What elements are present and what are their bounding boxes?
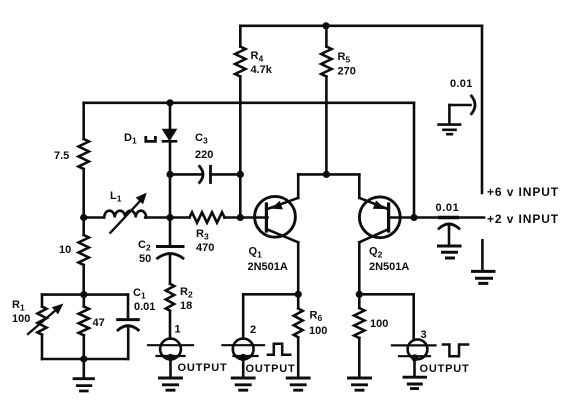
label R2 [180,286,193,312]
wire left rail upper [82,103,85,139]
capacitor C3 [170,173,202,176]
svg-text:OUTPUT: OUTPUT [246,363,296,375]
diode D1 [169,103,172,130]
node network bottom [80,355,87,362]
parallel network top bar [42,293,128,296]
node D1 top junction [166,99,173,106]
node D1/C3 junction [166,171,173,178]
capacitor 0.01 at +2v input [440,216,458,219]
node R4 / main line junction [237,214,244,221]
svg-text:0.01: 0.01 [436,202,460,214]
resistor R5 line [325,26,328,47]
svg-text:2: 2 [250,324,256,336]
ground 0.01 [439,246,461,258]
ground output 2 [232,378,254,390]
wire left rail lower [82,265,85,295]
wire Q2 collector [358,242,361,294]
wire Q1 collector [297,242,300,294]
svg-text:+2 v INPUT: +2 v INPUT [487,212,559,226]
svg-text:Q1: Q1 [249,246,263,260]
capacitor 0.01 feedthrough top right [449,104,470,107]
wire Q2 base to right [389,216,484,219]
inductor L1 [104,211,146,218]
label Q2 [369,246,409,274]
node top rail / R5 junction [322,22,329,29]
wire right +6v rail [481,26,484,193]
svg-text:7.5: 7.5 [54,150,69,162]
wire right drop to Q2 base node [413,103,416,218]
label C1 [133,287,155,313]
transistor Q2 [359,197,400,238]
wire to output 3 [359,293,413,296]
svg-text:R5: R5 [338,51,351,65]
svg-text:R2: R2 [180,286,193,300]
capacitor C2 [169,218,172,246]
label C2 [138,239,151,265]
svg-text:R4: R4 [251,50,264,64]
node emitter bus / R5 junction [323,171,330,178]
label R1 [12,299,30,325]
svg-text:0.01: 0.01 [450,78,473,90]
svg-text:OUTPUT: OUTPUT [420,363,470,375]
svg-text:C3: C3 [195,132,208,146]
label R5 [338,51,356,78]
mark u bracket [146,136,156,141]
resistor R1 [41,295,44,307]
wire top supply rail [240,24,482,27]
ground network [83,359,86,377]
svg-text:10: 10 [59,244,71,256]
svg-text:R1: R1 [12,299,25,313]
parallel network bottom bar [42,358,128,361]
connector output 1 [160,339,181,360]
node R4/C3 junction [237,171,244,178]
wire to output 2 [243,293,298,296]
node Q1 collector junction [295,291,302,298]
capacitor C1 [127,295,130,318]
label R4 [251,50,273,76]
svg-text:47: 47 [93,317,105,329]
node left rail / L1 junction [80,214,87,221]
node C2 junction [166,214,173,221]
svg-text:1: 1 [175,324,181,336]
svg-text:D1: D1 [124,132,137,146]
svg-text:OUTPUT: OUTPUT [178,362,228,374]
node network top [80,291,87,298]
svg-text:C2: C2 [138,239,151,253]
resistor R6 [297,294,300,308]
resistor 100 [358,294,361,308]
svg-text:3: 3 [421,329,427,341]
waveform negative pulse [443,345,468,357]
svg-text:18: 18 [180,300,192,312]
ground output 3 [404,377,426,388]
resistor R4 line [239,26,242,47]
resistor R5 [321,47,331,77]
svg-text:C1: C1 [133,287,146,301]
resistor 47 [83,295,86,307]
svg-text:0.01: 0.01 [134,301,155,313]
wire main horizontal line left [84,216,104,219]
svg-text:L1: L1 [110,190,122,204]
wire R2 to output 1 [169,311,172,339]
wire emitter coupling bus [298,173,359,176]
label R6 [309,310,327,338]
svg-text:R6: R6 [310,310,323,324]
svg-text:270: 270 [338,66,356,78]
svg-text:+6 v INPUT: +6 v INPUT [487,185,559,199]
ground feedthrough [439,125,461,135]
node Q2 base junction [410,214,417,221]
svg-text:470: 470 [196,242,214,254]
resistor R4 [235,47,245,77]
svg-text:R3: R3 [196,228,209,242]
waveform positive pulse [268,344,290,355]
svg-text:220: 220 [195,149,213,161]
arrow through R1 [28,311,55,335]
svg-text:100: 100 [12,313,30,325]
resistor R3 [190,212,225,222]
resistor 10 [78,235,88,265]
svg-text:2N501A: 2N501A [369,261,409,273]
connector output 3 [408,339,428,359]
wire main line to Q1 base [225,216,268,219]
wire upper horizontal bus y=102.8 [84,102,414,105]
ground R6 [287,378,309,390]
label R3 [196,228,214,254]
transistor Q1 [255,196,296,237]
resistor R2 [166,284,174,311]
connector output 2 [233,339,254,360]
svg-text:50: 50 [139,253,151,265]
ground output 1 [160,378,182,390]
wire left rail middle [82,169,85,235]
node Q2 collector junction [356,291,363,298]
svg-text:100: 100 [370,318,388,330]
ground right isolated [481,240,484,269]
label C3 [195,132,213,161]
svg-text:4.7k: 4.7k [251,64,273,76]
svg-text:100: 100 [309,325,327,337]
svg-text:Q2: Q2 [369,246,383,260]
wire main line middle [145,216,189,219]
resistor 7.5 [78,139,88,169]
ground 100 [349,378,371,390]
svg-text:2N501A: 2N501A [248,261,288,273]
label Q1 [248,246,288,274]
arrow through L1 [110,200,141,233]
